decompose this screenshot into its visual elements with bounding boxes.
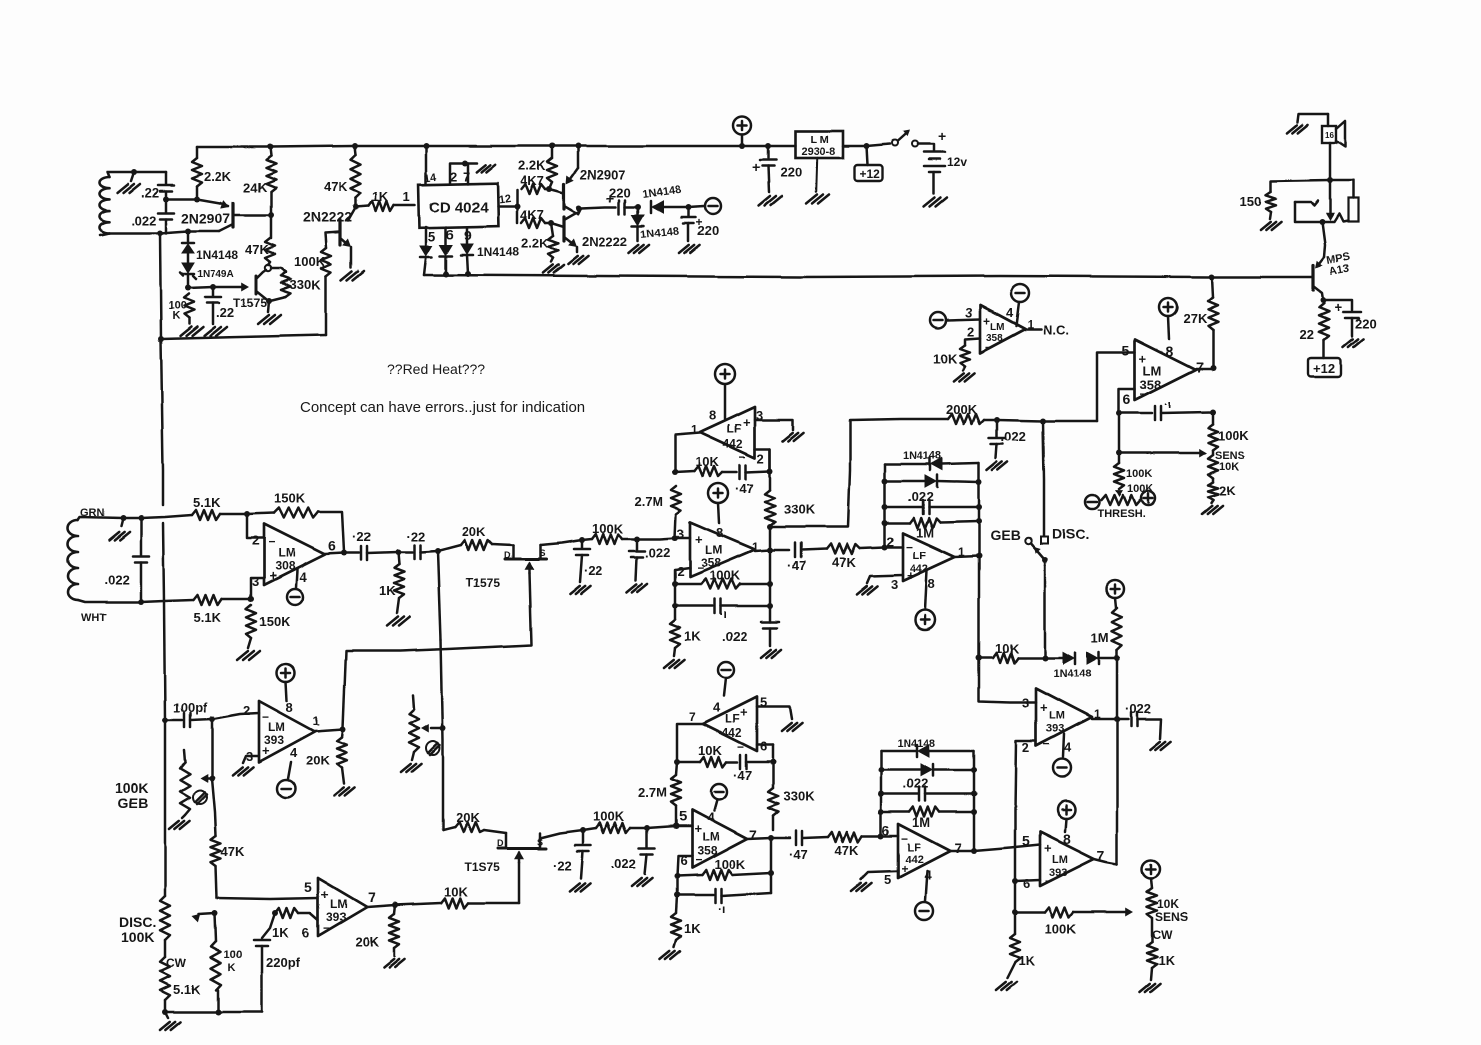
power plus U8A — [277, 664, 295, 682]
svg-text:CW: CW — [1152, 928, 1173, 942]
resistor 20K upper channel — [438, 545, 461, 551]
svg-text:4: 4 — [1064, 740, 1072, 755]
op-amp U9 LM358 lower — [676, 825, 692, 828]
output U11 wire — [1094, 859, 1117, 864]
output rail down — [978, 556, 981, 658]
svg-text:150: 150 — [1240, 194, 1262, 209]
pin3 ground U6B — [867, 575, 903, 583]
terminal minus U9 pin4 — [711, 784, 727, 800]
capacitor .22 couple a — [344, 552, 359, 555]
svg-text:WHT: WHT — [81, 612, 106, 624]
wire 100pf node down — [211, 719, 214, 778]
svg-text:6: 6 — [760, 739, 767, 754]
capacitor .022 upper channel — [634, 536, 640, 542]
IC CD4024 — [419, 183, 499, 228]
svg-text:LF: LF — [907, 842, 921, 854]
svg-text:20K: 20K — [456, 810, 480, 825]
ground under 1K U9 — [660, 951, 670, 959]
svg-text:330K: 330K — [784, 502, 816, 517]
capacitor .22 upper channel — [579, 537, 585, 543]
capacitor .022 fb — [885, 506, 922, 509]
svg-text:LF: LF — [725, 712, 740, 726]
transistor Q5 2N2222 driver — [551, 223, 564, 227]
output U8A — [315, 729, 343, 731]
svg-text:8: 8 — [716, 525, 723, 540]
svg-text:4: 4 — [707, 810, 715, 825]
svg-text:1M: 1M — [1091, 630, 1109, 645]
svg-text:DISC.: DISC. — [1052, 526, 1089, 542]
svg-text:2930-8: 2930-8 — [801, 146, 835, 158]
svg-text:4: 4 — [290, 745, 298, 760]
svg-text:10K: 10K — [444, 884, 468, 899]
svg-text:1K: 1K — [1018, 953, 1035, 968]
wire fb to 200K — [770, 419, 948, 527]
ground at coil top — [131, 172, 134, 181]
pot GEB case circle — [193, 790, 207, 804]
svg-text:2: 2 — [252, 533, 259, 548]
resistor 10K disc — [993, 653, 1018, 663]
terminal minus U8A — [288, 762, 291, 779]
svg-text:LM: LM — [268, 720, 285, 734]
svg-text:47K: 47K — [245, 242, 269, 257]
op-amp U6B LF442 — [885, 546, 903, 549]
svg-text:·22: ·22 — [584, 563, 603, 578]
capacitor .022 RX — [138, 515, 144, 521]
svg-text:100K: 100K — [121, 929, 154, 945]
resistor 5.1K lower — [194, 595, 222, 605]
capacitor .22 osc — [165, 172, 168, 184]
svg-text:LM: LM — [278, 546, 295, 560]
wire pin3 LM393 — [979, 658, 1036, 702]
power plus U5A — [708, 483, 728, 503]
svg-text:2K: 2K — [1219, 483, 1236, 498]
svg-text:LM: LM — [330, 897, 347, 911]
power plus U3B — [1159, 298, 1177, 316]
ground under 150K — [237, 651, 248, 660]
resistor 1K shunt — [398, 552, 399, 564]
svg-text:220: 220 — [780, 165, 802, 180]
op-amp U8B LM393 lower — [318, 878, 367, 936]
ground at GRN — [120, 515, 126, 521]
fb net right rail — [978, 463, 981, 556]
resistor 47K chain — [212, 778, 216, 836]
output U4 — [325, 553, 344, 554]
wire U5A rail — [769, 449, 772, 471]
svg-text:LM: LM — [1052, 854, 1068, 866]
ground under 1K U11 — [996, 982, 1006, 990]
svg-text:−: − — [1140, 387, 1147, 401]
resistor 100K output — [1212, 412, 1215, 424]
op-amp U6C LF442 lower — [703, 697, 757, 751]
ground under .022 output — [1150, 742, 1160, 750]
wire output rail down — [1116, 658, 1119, 864]
terminal minus pin4 — [1011, 284, 1029, 302]
ground under supply cap — [759, 197, 770, 206]
wire speaker to jack — [1329, 143, 1332, 180]
resistor 47K couple lower — [828, 832, 862, 842]
svg-text:·ı: ·ı — [718, 902, 725, 916]
resistor 1M fb — [885, 522, 910, 525]
op-amp U6A LF442 — [700, 407, 755, 458]
pin2 wire LF442 A — [755, 449, 770, 470]
svg-text:N.C.: N.C. — [1043, 323, 1069, 338]
svg-text:CD 4024: CD 4024 — [429, 199, 489, 216]
capacitor .22 lower channel — [580, 827, 586, 833]
svg-text:+: + — [752, 159, 760, 175]
op-amp U7A LM393 — [1036, 688, 1092, 746]
svg-text:SENS: SENS — [1155, 910, 1188, 924]
pot case circle — [426, 741, 440, 755]
+12 supply box — [864, 143, 870, 149]
resistor 5.1K disc — [164, 940, 167, 957]
svg-text:2N2222: 2N2222 — [303, 209, 352, 225]
long vertical wire lower — [164, 720, 167, 896]
terminal minus pin4 U4 — [296, 570, 297, 588]
JFET T1575 osc — [255, 276, 258, 294]
svg-text:LM: LM — [1143, 363, 1162, 378]
svg-text:2.7M: 2.7M — [638, 785, 667, 800]
capacitor 220 coupling — [581, 207, 616, 208]
svg-text:10K: 10K — [933, 351, 957, 366]
diode 1N4148 fb2 — [885, 480, 924, 483]
pin5 ground U10 — [861, 871, 898, 879]
svg-text:7: 7 — [1196, 359, 1204, 375]
op-amp U10 LF442 lower — [898, 824, 950, 878]
terminal minus audio — [688, 206, 704, 207]
+12 box emitter — [1323, 340, 1326, 358]
diodes 1N4148 pair — [1063, 652, 1074, 664]
svg-text:5: 5 — [1022, 833, 1030, 849]
svg-text:100pf: 100pf — [173, 700, 208, 715]
oscillator bottom wire — [161, 335, 326, 339]
resistor 200K — [948, 414, 984, 424]
capacitor .1 fb U5A — [672, 603, 678, 609]
svg-text:100K: 100K — [115, 780, 148, 796]
svg-text:6: 6 — [302, 925, 309, 940]
resistor 4K7 lower — [516, 206, 519, 223]
svg-text:27K: 27K — [1183, 311, 1207, 326]
JFET T1575 lower mod — [505, 833, 508, 848]
svg-text:2: 2 — [677, 564, 684, 579]
svg-text:2.2K: 2.2K — [521, 236, 549, 251]
rail 330K lower — [772, 745, 775, 788]
svg-text:150K: 150K — [259, 614, 291, 629]
capacitor .1 fb U9 — [674, 892, 680, 898]
wire GEB to diode node — [1044, 560, 1047, 658]
pot DISC body — [160, 896, 170, 940]
svg-text:100K: 100K — [714, 857, 746, 872]
pin3 ground wire — [755, 420, 793, 430]
pin6 wire U9 — [677, 856, 692, 876]
gate wire lower — [518, 862, 521, 903]
svg-text:10K: 10K — [695, 454, 719, 469]
svg-text:+: + — [262, 743, 270, 758]
svg-text:+: + — [1334, 299, 1342, 315]
ground under 220 — [679, 245, 689, 253]
diode 1N4148 series — [652, 201, 663, 213]
svg-text:7: 7 — [368, 889, 376, 905]
svg-text:10K: 10K — [698, 743, 722, 758]
svg-text:1: 1 — [691, 423, 698, 437]
wire coil top to cap — [134, 171, 166, 174]
pin2 wire down — [1015, 741, 1036, 881]
gate wire upper — [343, 573, 531, 728]
capacitor .022 osc — [165, 199, 168, 212]
capacitor 220 emitter — [1323, 300, 1352, 310]
op-amp U3B LM358 — [1135, 339, 1196, 400]
resistor 27K — [1209, 274, 1215, 280]
resistor 2.7M upper — [671, 486, 681, 514]
svg-text:LM: LM — [990, 322, 1004, 333]
svg-text:5: 5 — [428, 228, 436, 244]
svg-text:4: 4 — [713, 700, 721, 715]
pin6 wire lower — [757, 744, 773, 747]
ground under 1K — [387, 617, 398, 626]
svg-text:7: 7 — [689, 710, 696, 724]
svg-text:330K: 330K — [290, 277, 322, 292]
output wire LF442 A — [675, 433, 700, 472]
node osc base — [163, 196, 169, 202]
svg-text:T1575: T1575 — [466, 576, 500, 590]
svg-text:5.1K: 5.1K — [194, 610, 222, 625]
ground under regulator — [816, 158, 817, 192]
svg-text:+: + — [938, 128, 946, 144]
svg-text:100K: 100K — [593, 809, 625, 824]
ground at pin 2-7 — [477, 165, 486, 172]
resistor 20K U8A out — [337, 737, 347, 768]
ground under battery — [924, 197, 935, 206]
pot DISC wiper — [199, 913, 215, 914]
regulator LM2930-8 — [795, 131, 843, 158]
output wire U3B — [1196, 368, 1213, 371]
ground under 20K — [334, 788, 344, 796]
svg-text:·ı: ·ı — [719, 607, 726, 621]
svg-text:??Red Heat???: ??Red Heat??? — [387, 361, 485, 377]
op-amp U4 LM308 — [247, 514, 264, 538]
svg-text:1N4148: 1N4148 — [897, 738, 936, 750]
svg-text:D: D — [504, 550, 511, 560]
output U10 — [950, 850, 974, 853]
capacitor .47 fb upper — [739, 465, 742, 479]
ground speaker return — [1297, 114, 1328, 122]
pot body mid — [413, 695, 414, 709]
svg-text:−: − — [695, 853, 702, 867]
svg-text:220: 220 — [1355, 316, 1377, 331]
transistor Q2 2N2222 — [348, 207, 356, 221]
headphone jack — [1330, 180, 1353, 198]
long vertical wire left — [160, 233, 161, 339]
svg-text:100K: 100K — [1127, 483, 1153, 495]
wire jack to Q6 — [1322, 222, 1325, 257]
wire U10 to U11 pin5 — [974, 845, 1040, 851]
svg-text:4: 4 — [299, 569, 307, 585]
resistor 1K U9 — [676, 895, 677, 913]
resistor 4K7 upper — [516, 190, 519, 206]
wire 47K to pin5 — [217, 898, 318, 899]
svg-text:1K: 1K — [272, 925, 289, 940]
switch SPST power — [892, 140, 898, 146]
svg-text:1N4148: 1N4148 — [477, 245, 519, 259]
resistor 2.2K pullup — [549, 143, 555, 149]
svg-text:3: 3 — [965, 305, 972, 320]
resistor 10K pin2 — [965, 338, 980, 345]
svg-text:2.2K: 2.2K — [518, 158, 546, 173]
svg-text:6: 6 — [1123, 391, 1131, 407]
svg-text:220pf: 220pf — [266, 955, 301, 970]
svg-text:+12: +12 — [860, 167, 881, 181]
svg-text:·22: ·22 — [553, 858, 572, 873]
pin5 ground wire lower — [757, 707, 792, 719]
ground under 150 — [1261, 222, 1271, 230]
ground under 1K sens — [1140, 984, 1150, 992]
wire to pin5 U9 — [647, 826, 676, 828]
svg-text:5.1K: 5.1K — [173, 982, 201, 997]
svg-text:·47: ·47 — [735, 481, 754, 496]
svg-text:−: − — [697, 561, 704, 575]
svg-text:100: 100 — [224, 949, 242, 961]
resistor 1K U11 — [1014, 881, 1017, 912]
svg-text:.022: .022 — [1001, 429, 1026, 444]
svg-text:LM: LM — [705, 543, 722, 557]
svg-text:.022: .022 — [645, 545, 670, 560]
capacitor .022 lower channel — [644, 825, 650, 831]
svg-text:8: 8 — [286, 700, 293, 715]
resistor 100K osc — [184, 294, 194, 318]
top supply bus — [197, 146, 795, 147]
op-amp U11 LM393 — [1040, 832, 1094, 886]
resistor 330K osc — [271, 268, 286, 272]
resistor 2.7M lower — [676, 762, 677, 775]
bottom tie wire — [165, 1011, 262, 1014]
svg-text:LM: LM — [702, 830, 719, 844]
svg-text:.22: .22 — [141, 185, 159, 200]
svg-text:8: 8 — [928, 576, 935, 591]
pot 100K GEB wiper — [206, 777, 212, 780]
wire WHT to 5.1K — [141, 600, 194, 602]
ground under diode — [629, 245, 639, 253]
resistor 20K lower channel — [443, 827, 455, 830]
svg-text:442: 442 — [723, 437, 743, 451]
svg-text:−: − — [1043, 737, 1050, 751]
svg-text:+: + — [907, 568, 915, 583]
svg-text:+: + — [269, 568, 277, 583]
resistor 150K feedback upper — [247, 513, 274, 514]
pin6 wire U11 — [1015, 880, 1040, 881]
capacitor .22 couple b — [398, 551, 412, 554]
resistor 2.2K osc — [196, 147, 199, 158]
svg-text:2N2222: 2N2222 — [582, 234, 628, 249]
wire GRN to 5.1K — [141, 515, 192, 518]
resistor 5.1K upper — [192, 510, 220, 520]
svg-text:47K: 47K — [835, 843, 859, 858]
resistor 1K to pin1 — [356, 206, 369, 207]
resistor 10K fb lower — [677, 761, 700, 764]
resistor 1K U5A — [674, 606, 677, 620]
long bottom bus — [424, 275, 1313, 277]
capacitor .022 rail — [761, 621, 779, 624]
svg-text:+: + — [743, 415, 751, 430]
svg-text:4K7: 4K7 — [520, 207, 544, 222]
JFET T1575 upper mod — [512, 545, 515, 559]
svg-text:LM: LM — [1049, 710, 1065, 722]
svg-text:K: K — [228, 962, 236, 974]
resistor 100K thresh upper — [1118, 413, 1121, 463]
svg-text:·22: ·22 — [406, 529, 425, 544]
wire pin5 from signal — [1097, 352, 1135, 421]
ground under Q2 — [341, 271, 352, 280]
svg-text:D: D — [497, 838, 504, 848]
ground under .022 upper — [627, 584, 637, 592]
ground under GEB pot — [169, 821, 179, 829]
svg-text:LF: LF — [913, 550, 927, 562]
svg-text:.022: .022 — [611, 856, 636, 871]
svg-text:7: 7 — [463, 169, 470, 184]
svg-text:1: 1 — [313, 714, 320, 728]
svg-text:2.2K: 2.2K — [204, 169, 232, 184]
svg-text:L M: L M — [810, 134, 829, 146]
diode 1N4148 fb3 — [881, 750, 916, 753]
U9 output rail — [770, 838, 773, 893]
svg-text:.022: .022 — [908, 489, 933, 504]
svg-text:100K: 100K — [709, 568, 741, 583]
svg-text:+12: +12 — [1313, 361, 1335, 376]
power plus U11 — [1057, 801, 1075, 819]
transistor Q6 MPS A13 — [1317, 257, 1324, 266]
pot 10K SENS body — [1208, 455, 1218, 478]
svg-text:7: 7 — [954, 840, 962, 856]
pin4 minus U7A — [1063, 734, 1064, 757]
svg-text:1N4148: 1N4148 — [903, 450, 942, 462]
capacitor .47 couple — [770, 549, 789, 552]
ground under .022 lower — [632, 878, 642, 886]
fb net 2 right rail — [973, 751, 976, 851]
resistor 47K divider — [352, 143, 358, 149]
svg-text:1: 1 — [403, 189, 410, 204]
svg-text:6: 6 — [328, 538, 336, 554]
wire pin2 U5A — [675, 568, 690, 584]
svg-text:.22: .22 — [216, 305, 234, 320]
svg-text:1K: 1K — [372, 189, 389, 204]
capacitor 220pf — [272, 910, 278, 916]
svg-text:+: + — [983, 314, 990, 328]
svg-text:1N749A: 1N749A — [197, 269, 234, 280]
resistor 1M fb2 — [881, 811, 909, 814]
output U7A — [1092, 718, 1117, 721]
resistor 100K fb U9 — [677, 875, 702, 876]
svg-text:+: + — [694, 821, 702, 836]
op-amp U2A LM358 — [947, 319, 980, 320]
pot 10K SENS wiper — [1119, 452, 1199, 455]
svg-text:10K: 10K — [995, 641, 1019, 656]
resistor 20K U8B out — [394, 905, 395, 914]
svg-text:5.1K: 5.1K — [193, 495, 221, 510]
ground under .022 — [987, 462, 997, 470]
svg-text:3: 3 — [677, 526, 684, 541]
pins 2 7 reset — [450, 163, 477, 184]
svg-text:+: + — [1044, 841, 1052, 856]
svg-text:DISC.: DISC. — [119, 914, 156, 930]
svg-text:.022: .022 — [903, 776, 928, 791]
svg-text:330K: 330K — [783, 789, 815, 804]
capacitor .47 couple lower — [771, 837, 790, 840]
svg-text:150K: 150K — [274, 491, 306, 506]
resistor 1K U8B in — [275, 908, 298, 918]
ground under rail cap — [761, 650, 771, 658]
resistor 100K lower channel — [583, 828, 596, 830]
ground under T1575 — [258, 315, 269, 324]
svg-text:1K: 1K — [684, 629, 701, 644]
svg-text:393: 393 — [1046, 723, 1064, 735]
